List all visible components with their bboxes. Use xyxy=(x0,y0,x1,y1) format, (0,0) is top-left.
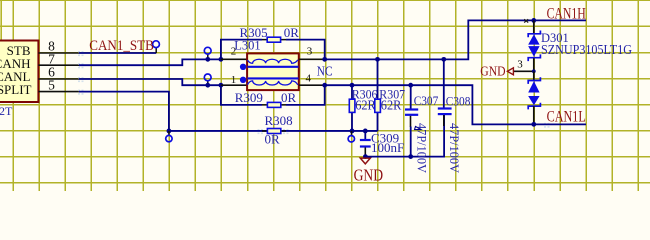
svg-text:R308: R308 xyxy=(265,113,293,128)
wire CANH row to corner xyxy=(325,20,586,59)
R309 loop wire xyxy=(221,85,325,105)
svg-text:CAN1H: CAN1H xyxy=(547,5,586,22)
svg-text:CAN1L: CAN1L xyxy=(547,108,586,125)
wire pin6 net to choke pin1 xyxy=(79,79,221,85)
TVS D301 triangle3 up xyxy=(528,81,539,92)
resistor R307 body xyxy=(375,99,381,112)
resistor R305 body xyxy=(267,37,280,42)
junction pin5 corner xyxy=(167,129,172,134)
choke polarity dot pin1 xyxy=(240,77,246,83)
svg-text:2T: 2T xyxy=(0,104,13,118)
power port GND triangle (bottom) xyxy=(360,158,370,164)
capacitor C308 plates xyxy=(438,107,452,109)
testpoint circle below pin5 junction xyxy=(168,131,170,135)
svg-text:GND: GND xyxy=(480,65,505,80)
capacitor C307 column top xyxy=(410,85,412,108)
testpoint circle row CANL xyxy=(207,81,209,85)
svg-text:0R: 0R xyxy=(281,90,297,105)
D301 top wire xyxy=(533,20,535,33)
svg-text:5: 5 xyxy=(48,78,55,93)
resistor R307 column wire xyxy=(377,59,379,131)
junction choke pin2 node xyxy=(219,57,224,62)
TVS D301 triangle2 down xyxy=(528,46,539,57)
junction C307 GND row xyxy=(408,154,413,159)
svg-text:100nF: 100nF xyxy=(371,140,404,155)
svg-text:C308: C308 xyxy=(446,93,471,108)
TVS D301 bar1 xyxy=(528,31,540,38)
capacitor C307 plates xyxy=(405,108,418,110)
junction R306 top xyxy=(350,83,355,88)
capacitor C309 column xyxy=(364,131,366,139)
ERC off-grid marks pins xyxy=(78,51,550,134)
wire pin7 net to choke pin2 xyxy=(79,59,221,65)
resistor R306 body xyxy=(349,99,355,112)
svg-text:SZNUP3105LT1G: SZNUP3105LT1G xyxy=(541,42,632,57)
junction C309-GND xyxy=(363,154,368,159)
GND row wire xyxy=(365,114,444,157)
wire pin5 net SPLIT down to R308 row xyxy=(79,92,378,131)
svg-text:1: 1 xyxy=(231,74,237,86)
svg-text:2: 2 xyxy=(231,46,237,58)
svg-text:NC: NC xyxy=(317,65,333,80)
svg-text:62R: 62R xyxy=(381,98,402,113)
wire pin8 net CAN1_STB xyxy=(79,52,156,54)
R305 loop wire xyxy=(221,40,325,60)
svg-text:L301: L301 xyxy=(234,38,260,52)
svg-text:CAN1_STB: CAN1_STB xyxy=(89,37,154,54)
choke winding 2 arcs xyxy=(248,81,298,85)
junction CAN1H D301 xyxy=(531,18,536,23)
junction C307 top xyxy=(408,83,413,88)
power port GND arrow (left) xyxy=(507,68,513,75)
choke pin4 line xyxy=(299,84,325,86)
resistor R309 pin stubs xyxy=(262,104,286,106)
choke core bar 1 xyxy=(247,66,298,68)
svg-text:0R: 0R xyxy=(265,131,281,146)
choke pin3 line xyxy=(299,58,325,60)
junction pin4 node xyxy=(322,83,327,88)
D301 bottom pin xyxy=(533,106,535,124)
choke pin2 line xyxy=(221,58,247,60)
choke pin1 line xyxy=(221,84,247,86)
D301 mid wire xyxy=(533,58,535,71)
sheet border segment top-left xyxy=(0,0,2,41)
svg-text:C307: C307 xyxy=(414,93,439,108)
resistor R309 body xyxy=(267,102,280,107)
testpoint circle below R306 bottom xyxy=(351,131,353,136)
D301 lower wire xyxy=(533,71,535,80)
testpoint circle pin8 xyxy=(153,41,160,48)
junction R306 bottom xyxy=(350,129,355,134)
choke core bar 2 xyxy=(247,77,298,79)
svg-text:47P/100V: 47P/100V xyxy=(447,123,462,174)
svg-text:3: 3 xyxy=(517,59,523,71)
testpoint stub pin8 xyxy=(155,48,157,53)
TVS D301 bar4 xyxy=(528,103,540,110)
C309 bottom stub xyxy=(364,148,366,157)
testpoint circle row CANH xyxy=(207,54,209,59)
capacitor C308 column top xyxy=(443,59,445,107)
grid horizontal lines xyxy=(0,0,650,182)
pin 7 line xyxy=(38,64,79,66)
junction C309 top xyxy=(363,129,368,134)
svg-text:47P/100V: 47P/100V xyxy=(415,123,430,174)
junction CAN1L D301 xyxy=(531,122,536,127)
C308 bottom stub xyxy=(443,115,445,126)
TVS D301 triangle4 down xyxy=(528,96,539,105)
choke polarity dot pin2 xyxy=(240,64,246,70)
junction node CANL x208 xyxy=(205,83,210,88)
resistor R308 body xyxy=(267,129,280,134)
choke L301 body xyxy=(247,53,299,90)
junction R307 top xyxy=(375,57,380,62)
svg-text:SPLIT: SPLIT xyxy=(0,82,32,97)
svg-text:R309: R309 xyxy=(235,90,263,105)
grid vertical lines xyxy=(13,0,638,191)
TVS D301 triangle1 up xyxy=(528,34,539,44)
pin 5 line xyxy=(38,91,79,93)
no-ERC marker C307 xyxy=(415,126,422,129)
svg-text:0R: 0R xyxy=(284,25,300,40)
junction pin3 node xyxy=(322,57,327,62)
resistor R305 pin stubs xyxy=(262,39,286,41)
pin 6 line xyxy=(38,78,79,80)
resistor R308 pin stubs xyxy=(262,130,286,132)
svg-text:62R: 62R xyxy=(355,98,376,113)
D301 pin3 line xyxy=(513,70,533,72)
junction node CANH x208 xyxy=(205,57,210,62)
pin 8 line xyxy=(38,52,79,54)
svg-text:4: 4 xyxy=(306,72,312,84)
resistor R306 column wire xyxy=(351,85,353,131)
capacitor C309 plates xyxy=(360,139,371,141)
wire CANL row to corner xyxy=(325,85,586,124)
sheet background xyxy=(0,0,650,191)
TVS D301 bar2 xyxy=(528,54,540,61)
IC U-left body (clipped at canvas edge) xyxy=(0,41,38,103)
svg-text:3: 3 xyxy=(307,46,313,58)
svg-text:GND: GND xyxy=(354,166,384,185)
choke winding 1 arcs xyxy=(248,59,298,63)
junction choke pin1 node xyxy=(219,83,224,88)
C307 bottom stub xyxy=(410,116,412,127)
junction C308 top xyxy=(441,57,446,62)
TVS D301 bar3 xyxy=(528,77,540,84)
no-ERC cross CAN1H xyxy=(524,19,528,22)
